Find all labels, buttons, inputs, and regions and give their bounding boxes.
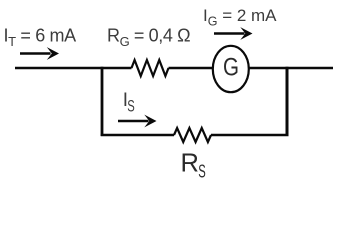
svg-text:IG = 2 mA: IG = 2 mA [203, 6, 277, 29]
svg-text:S: S [127, 96, 135, 115]
svg-text:G: G [223, 54, 239, 82]
svg-text:S: S [198, 160, 206, 181]
svg-text:R: R [181, 150, 199, 178]
svg-text:IT = 6 mA: IT = 6 mA [4, 26, 77, 50]
svg-text:RG = 0,4 Ω: RG = 0,4 Ω [107, 26, 190, 50]
